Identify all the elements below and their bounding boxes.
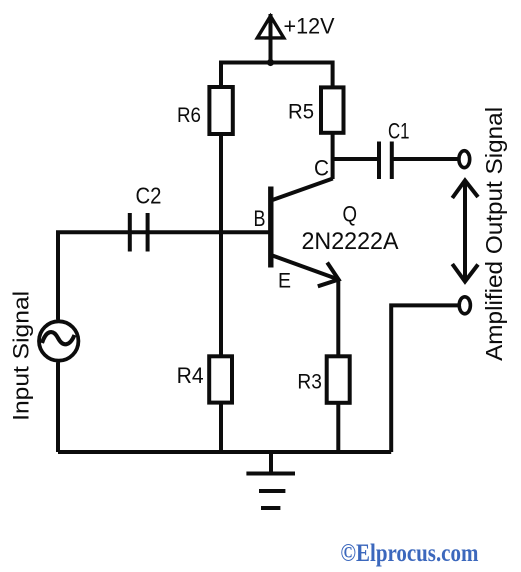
svg-text:+12V: +12V (284, 14, 335, 39)
svg-text:C: C (314, 155, 329, 180)
svg-text:B: B (254, 206, 266, 231)
svg-text:C1: C1 (388, 118, 410, 143)
svg-text:Q: Q (343, 202, 358, 227)
svg-text:E: E (278, 269, 291, 293)
svg-text:R6: R6 (177, 103, 201, 127)
svg-text:R5: R5 (288, 99, 314, 123)
svg-text:2N2222A: 2N2222A (302, 228, 399, 255)
svg-text:C2: C2 (136, 182, 162, 208)
svg-text:R3: R3 (297, 370, 322, 393)
svg-text:Amplified Output Signal: Amplified Output Signal (481, 107, 507, 361)
svg-text:©Elprocus.com: ©Elprocus.com (340, 540, 478, 567)
svg-text:Input Signal: Input Signal (9, 291, 34, 421)
svg-text:R4: R4 (177, 363, 204, 388)
